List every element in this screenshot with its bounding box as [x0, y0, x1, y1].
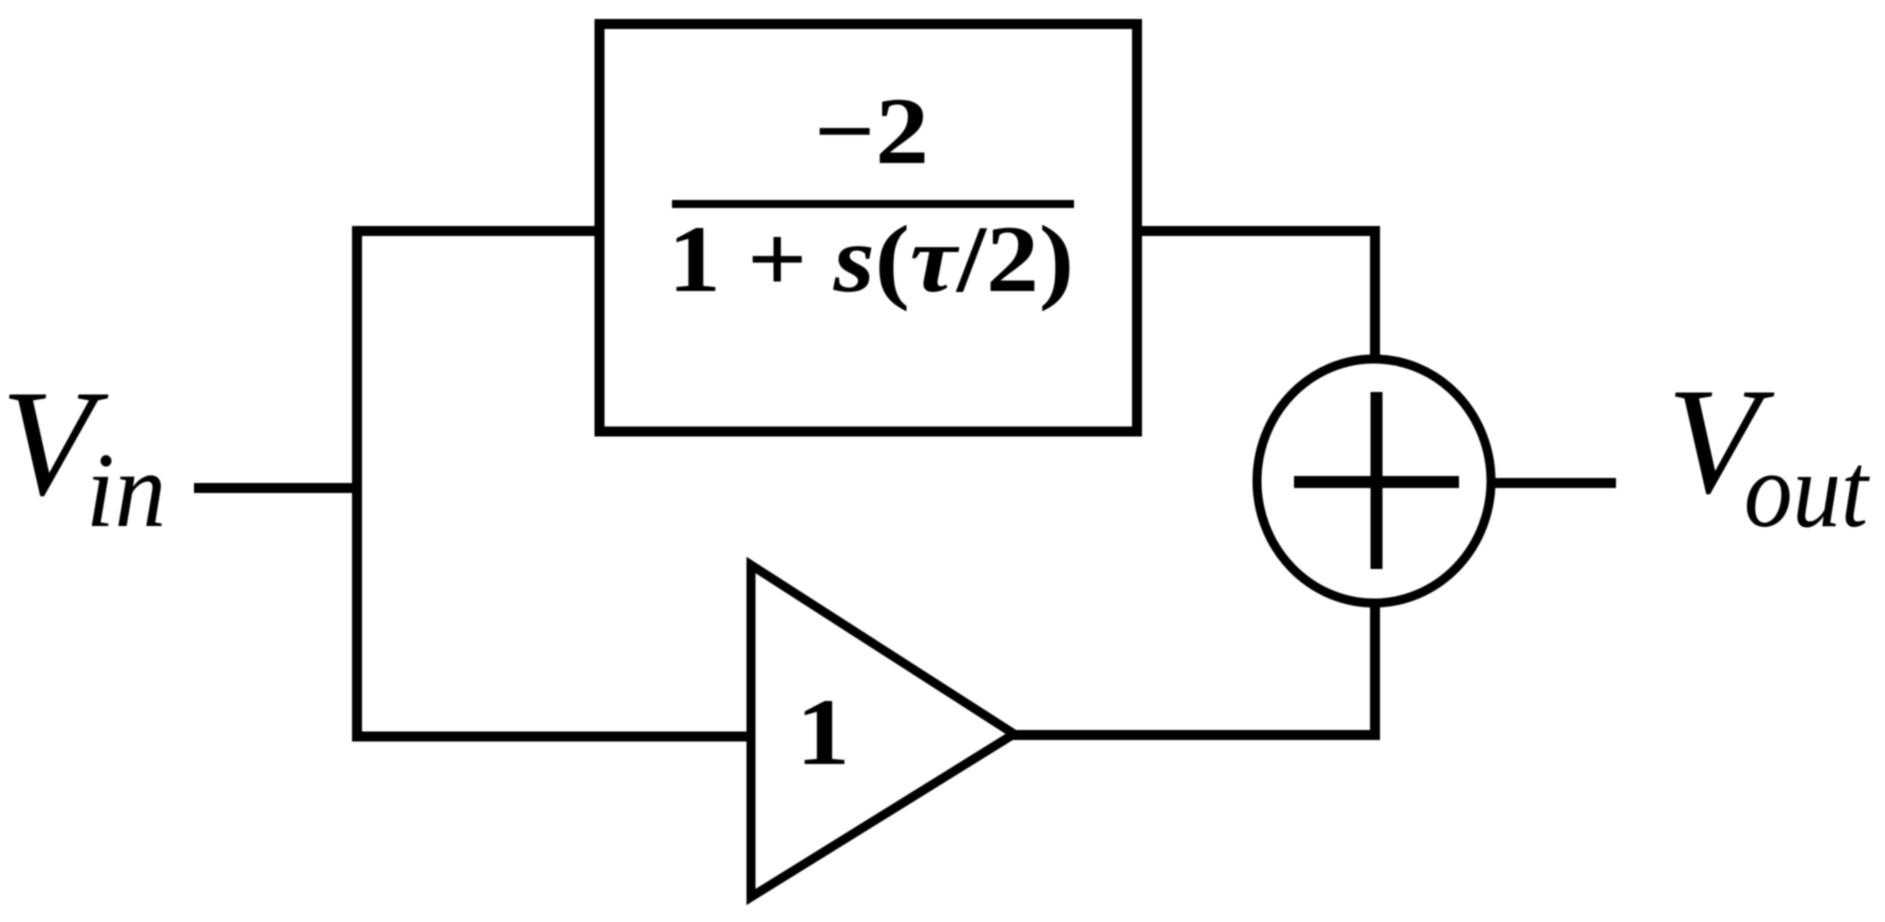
wire: gain buffer output to corner: [1010, 730, 1380, 740]
wire: block H1 output to corner: [1132, 226, 1380, 236]
fraction bar: [672, 200, 1074, 208]
block H1: transfer function box: [600, 24, 1138, 432]
svg-text:in: in: [86, 432, 166, 550]
summing junction plus sign horizontal: [1294, 476, 1459, 488]
svg-text:1: 1: [796, 679, 850, 785]
wire: branch to block H1 input: [352, 226, 600, 236]
wire: Vin input stub: [194, 483, 362, 493]
wire: corner up to summing junction bottom: [1370, 601, 1380, 740]
wire: corner down to summing junction top: [1370, 226, 1380, 362]
svg-text:1 + s(τ/2): 1 + s(τ/2): [668, 206, 1074, 312]
wire: bottom branch to gain buffer: [352, 732, 752, 742]
wire: summing junction to Vout: [1492, 478, 1616, 488]
summing junction plus sign vertical: [1371, 392, 1383, 569]
wire: input branch vertical: [352, 226, 362, 742]
svg-text:out: out: [1744, 432, 1870, 550]
gain buffer triangle: [751, 565, 1014, 897]
summing junction U1 circle: [1257, 359, 1491, 603]
svg-text:−2: −2: [814, 78, 929, 184]
